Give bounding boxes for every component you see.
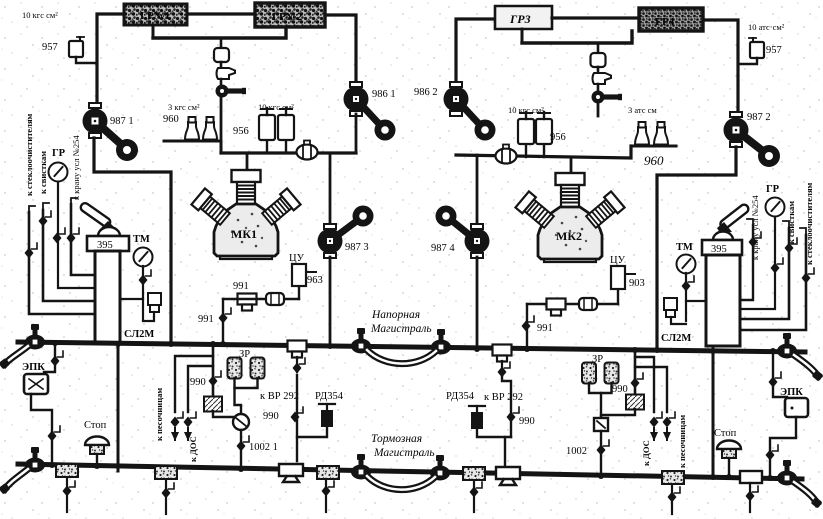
safety valve 960 (right half, left bottle) bbox=[634, 122, 650, 146]
wire: riser to valve 963 bbox=[298, 286, 300, 299]
svg-text:ГР3: ГР3 bbox=[509, 12, 531, 26]
svg-text:960: 960 bbox=[163, 114, 179, 125]
valve (round body) on central drop bbox=[214, 48, 229, 62]
wire: whistle line right bbox=[740, 228, 789, 319]
flex hose right pressure main bbox=[794, 355, 818, 376]
svg-text:990: 990 bbox=[519, 416, 535, 427]
svg-text:к стеклоочистителям: к стеклоочистителям bbox=[24, 113, 34, 196]
tee filter 991 left bbox=[238, 294, 257, 311]
wire: shelf right (956 side) bbox=[456, 146, 631, 158]
svg-text:956: 956 bbox=[233, 126, 249, 137]
svg-text:РД354: РД354 bbox=[446, 391, 475, 402]
drain below bbox=[473, 481, 475, 512]
svg-text:ГР4: ГР4 bbox=[655, 16, 675, 28]
valve 990 left bbox=[209, 371, 222, 387]
valve on gauge line bbox=[53, 228, 66, 244]
valve sander left bbox=[171, 412, 184, 428]
svg-text:990: 990 bbox=[190, 377, 206, 388]
wire: whistle line left bbox=[43, 210, 96, 301]
wire: 987-1 down then right to panel line bbox=[94, 138, 171, 344]
svg-text:к ДОС: к ДОС bbox=[188, 436, 198, 462]
valve 990 right drop bbox=[631, 373, 644, 389]
brake main fitting mid-left bbox=[317, 466, 339, 479]
wire: TM gauge drop bbox=[142, 266, 144, 320]
wire: 986-1 down to shelf bbox=[355, 114, 358, 153]
wire: EPK feed from pressure main bbox=[44, 343, 55, 372]
valve 991 on drop bbox=[219, 308, 232, 324]
pressure regulator 956 (right) bbox=[278, 108, 294, 153]
wye fitting on brake main right bbox=[496, 467, 520, 485]
svg-text:991: 991 bbox=[537, 323, 553, 334]
compressor MK2 bbox=[515, 173, 624, 262]
hose coupling: brake main left end bbox=[25, 447, 45, 473]
reservoir GR4 (dark hatched box) bbox=[639, 8, 703, 31]
svg-text:ЦУ: ЦУ bbox=[610, 255, 626, 266]
stop valve right bbox=[717, 441, 741, 459]
pressure regulator 956 (left) bbox=[259, 108, 275, 153]
reserve reservoir ZR right-1 bbox=[582, 363, 596, 384]
svg-text:990: 990 bbox=[612, 384, 628, 395]
flex hose left pressure main bbox=[5, 346, 28, 364]
wire: sander branch right bbox=[635, 367, 667, 412]
wire bbox=[597, 67, 600, 73]
valve on whistle line bbox=[39, 211, 52, 227]
valve on wiper right bbox=[802, 268, 815, 284]
wire bbox=[220, 79, 223, 86]
crane 395 right: pedestal bbox=[706, 255, 740, 346]
crane 395 left: dome bbox=[98, 227, 120, 236]
wire: shelf drop to valve 987-4 bbox=[476, 155, 479, 228]
safety valve 960 (right half, right bottle) bbox=[653, 122, 669, 146]
drain valve below fitting 2 bbox=[165, 480, 167, 514]
panel border line right (SL2M bay) bbox=[712, 349, 715, 476]
svg-text:1002: 1002 bbox=[566, 446, 587, 457]
pressure-regulator 991 assembly right: wire bbox=[527, 303, 618, 305]
hose coupling: pressure main left end bbox=[25, 324, 45, 350]
wire: sensor U-bend bbox=[143, 312, 154, 321]
wire: sub-manifold under GR3/GR4 bbox=[522, 31, 632, 43]
svg-text:к ВР 292: к ВР 292 bbox=[260, 391, 299, 402]
svg-text:СЛ2М: СЛ2М bbox=[124, 329, 154, 340]
speed sensor fitting SL2M right bbox=[664, 298, 677, 310]
inter-section hose brake main bbox=[367, 476, 435, 490]
svg-text:Стоп: Стоп bbox=[714, 428, 737, 439]
svg-text:к песочницам: к песочницам bbox=[677, 415, 687, 468]
svg-text:ЦУ: ЦУ bbox=[289, 253, 305, 264]
wire: 987-2 down then left to right panel line bbox=[657, 147, 736, 348]
wire: wiper line left bbox=[29, 212, 96, 314]
valve on wiper line bbox=[25, 243, 38, 259]
reservoir GR2 (hatched box B) bbox=[255, 3, 325, 27]
wire: DOS branch left bbox=[188, 366, 213, 412]
drain ball valve right bbox=[592, 91, 623, 104]
svg-text:395: 395 bbox=[711, 244, 727, 255]
valve 1002 right bbox=[597, 440, 610, 456]
valve on GR right line bbox=[771, 258, 784, 274]
reserve reservoir ZR left-1 bbox=[228, 358, 242, 379]
reserve reservoir ZR right-2 bbox=[605, 363, 619, 384]
wire: GR gauge line right bbox=[740, 217, 775, 309]
hose coupling: brake main mid-left bbox=[351, 454, 371, 480]
wire: ZR connections bbox=[235, 378, 258, 388]
flex hose left brake main bbox=[5, 469, 28, 489]
wire: shelf drop to valve 987-3 bbox=[329, 153, 332, 228]
svg-text:ТМ: ТМ bbox=[676, 242, 693, 253]
wire: GR3 bottom stub bbox=[521, 29, 524, 43]
valve 987-4 (ball with handle up-left) bbox=[436, 206, 490, 259]
check valve fitting (circle) bbox=[233, 414, 249, 430]
wire: TM right drop bbox=[685, 273, 687, 321]
svg-text:МК2: МК2 bbox=[556, 229, 582, 243]
wire: crane-254 line left bbox=[71, 204, 96, 275]
wire: riser to valve 903 bbox=[617, 289, 619, 304]
wire: VR292 drop bbox=[296, 375, 298, 461]
svg-text:395: 395 bbox=[97, 240, 113, 251]
wire bbox=[220, 62, 223, 68]
wire: sub-manifold under boxes bbox=[153, 27, 286, 38]
svg-text:ЭПК: ЭПК bbox=[780, 387, 803, 398]
wire: EPK right to brake main bbox=[770, 417, 796, 477]
svg-text:903: 903 bbox=[629, 278, 645, 289]
svg-text:ТМ: ТМ bbox=[133, 234, 150, 245]
valve on whistle right bbox=[785, 238, 798, 254]
filter right bbox=[626, 395, 644, 410]
wire: down to brake main right bbox=[600, 431, 602, 476]
crane 395 right: handle lever bbox=[719, 203, 750, 230]
valve below EPK right bbox=[766, 445, 779, 461]
wire: stop valve stem bbox=[96, 454, 98, 466]
svg-text:Магистраль: Магистраль bbox=[370, 323, 432, 335]
wire bbox=[597, 84, 600, 92]
drain below bbox=[749, 483, 751, 512]
wire: 987-3 down to pressure main bbox=[329, 257, 332, 347]
valve DOS right bbox=[650, 412, 663, 428]
svg-text:3 атс см: 3 атс см bbox=[628, 105, 657, 115]
valve 987-2 (ball with handle down-right) bbox=[724, 112, 781, 167]
wire: box A to box B bbox=[187, 12, 255, 15]
brake line fitting 2 left bbox=[155, 466, 177, 479]
valve on EPK feed right bbox=[769, 372, 782, 388]
EPK device left bbox=[24, 374, 48, 394]
square fitting right bbox=[594, 418, 608, 431]
reducing valve 957 bbox=[69, 37, 84, 57]
wire: shelf drop to compressor MK2 bbox=[570, 158, 573, 173]
wire: pedestal to TM line bbox=[120, 298, 143, 300]
svg-text:963: 963 bbox=[307, 275, 323, 286]
wire: sensor U-bend right bbox=[671, 317, 686, 324]
svg-text:990: 990 bbox=[263, 411, 279, 422]
wire: EPK feed right bbox=[773, 351, 787, 397]
valve on TM right bbox=[682, 276, 695, 292]
wire: sander branch left bbox=[175, 356, 213, 412]
wire: shelf for 956 valves bbox=[221, 151, 356, 154]
panel border line left (SL2M bay) bbox=[117, 345, 120, 471]
reducing valve 957 right bbox=[749, 38, 764, 58]
EPK device right bbox=[785, 398, 808, 417]
pressure regulator 956 (right half, left) bbox=[518, 112, 534, 157]
wire: sander/DOS manifold drop right bbox=[634, 350, 637, 396]
valve 990 right bbox=[507, 407, 520, 423]
hose coupling: brake main mid-right bbox=[430, 455, 450, 481]
coupler sleeve right bbox=[579, 298, 597, 310]
wire: branch to RD354 right bbox=[477, 429, 511, 437]
svg-text:10 кгс см²: 10 кгс см² bbox=[258, 102, 294, 112]
valve 986-2 (ball with handle down-right) bbox=[444, 82, 496, 141]
svg-text:СЛ2М: СЛ2М bbox=[661, 333, 691, 344]
wire: 991 drop to main right bbox=[526, 304, 528, 348]
svg-text:ГР№1: ГР№1 bbox=[140, 10, 170, 22]
brake fitting mid right bbox=[463, 467, 485, 480]
valve 1002-1 bbox=[237, 436, 250, 452]
svg-text:Напорная: Напорная bbox=[371, 309, 420, 321]
valve on EPK feed bbox=[51, 351, 64, 367]
valve 963 (electro-pneumatic) bbox=[292, 264, 306, 286]
wire: drop to safety-valve shelf bbox=[220, 96, 223, 141]
valve 991 right bbox=[522, 316, 535, 332]
svg-text:1002 1: 1002 1 bbox=[249, 442, 278, 453]
pressure switch RD354 left bbox=[319, 404, 335, 427]
valve on crane-254 right bbox=[749, 232, 762, 248]
svg-text:987 2: 987 2 bbox=[747, 112, 771, 123]
svg-text:956: 956 bbox=[550, 132, 566, 143]
wire: central drop right bbox=[597, 43, 600, 53]
filter on 990 line left bbox=[204, 397, 222, 412]
gauge TM right bbox=[677, 255, 696, 274]
wire: shelf for 960 right bbox=[631, 145, 676, 148]
wire: main reservoir feed left, box A to valve 987-1 bbox=[97, 14, 124, 107]
junction dots on mains bbox=[49, 340, 776, 481]
inter-section hose pressure main bbox=[367, 350, 436, 364]
pressure main (Napornaya magistral) bbox=[18, 342, 805, 352]
valve on TM line bbox=[139, 270, 152, 286]
valve 990 on VR292 drop bbox=[291, 407, 304, 423]
safety valve 960 (left bottle) bbox=[184, 117, 200, 141]
wire: central drop from manifold bbox=[220, 38, 223, 48]
wire: GR gauge line left bbox=[58, 182, 96, 288]
svg-text:РД354: РД354 bbox=[315, 391, 344, 402]
wire: box B to valve 986-1 bbox=[325, 15, 356, 86]
pressure switch RD354 right bbox=[469, 406, 485, 429]
stub valve under tee bbox=[296, 357, 298, 372]
gauge GR left bbox=[49, 163, 68, 182]
wye fitting on brake main left bbox=[279, 464, 303, 482]
svg-text:ГР: ГР bbox=[52, 148, 66, 159]
svg-text:к крану усл №254: к крану усл №254 bbox=[750, 195, 760, 260]
svg-text:к ВР 292: к ВР 292 bbox=[484, 392, 523, 403]
valve (round body) on central drop right bbox=[591, 53, 606, 67]
tee filter 991 right bbox=[547, 299, 566, 316]
svg-text:ЭПК: ЭПК bbox=[22, 362, 45, 373]
wire: GR4 to right feed drop bbox=[703, 20, 738, 116]
stub valve under tee right bbox=[501, 361, 503, 376]
hose coupling: pressure main right end bbox=[777, 333, 797, 359]
wire: wiper line right bbox=[740, 235, 806, 330]
wire: down to brake main bbox=[240, 430, 242, 469]
safety valve 960 (right bottle) bbox=[202, 117, 218, 141]
valve DOS left bbox=[184, 412, 197, 428]
svg-text:957: 957 bbox=[42, 42, 58, 53]
wire: filter to ZR junction right bbox=[601, 409, 635, 418]
hose coupling: brake main right end bbox=[777, 460, 797, 486]
valve 903 (electro-pneumatic) bbox=[611, 266, 625, 289]
brake fitting right-2 bbox=[740, 471, 762, 483]
wire: 991 line left bbox=[223, 298, 299, 300]
svg-text:Стоп: Стоп bbox=[84, 420, 107, 431]
oil separator (kettle) bbox=[217, 68, 236, 79]
valve 987-1 (ball with handle down-right) bbox=[83, 103, 139, 161]
drain ball valve with handle bbox=[216, 85, 247, 98]
hose coupling: pressure main mid-left bbox=[351, 328, 371, 354]
reserve reservoir ZR left-2 bbox=[251, 358, 265, 379]
wire: VR292 drop right bbox=[502, 375, 511, 437]
wire: DOS branch right bbox=[635, 357, 654, 412]
tee on pressure main (VR292 branch right) bbox=[493, 345, 512, 362]
svg-text:991: 991 bbox=[233, 281, 249, 292]
svg-text:986 1: 986 1 bbox=[372, 89, 396, 100]
check valve right shelf bbox=[496, 145, 517, 164]
svg-text:Тормозная: Тормозная bbox=[371, 433, 422, 445]
crane 395 left: handle lever bbox=[79, 202, 112, 228]
valve 987-3 (ball with handle up-right) bbox=[318, 206, 374, 259]
svg-text:10 кгс см²: 10 кгс см² bbox=[22, 10, 58, 20]
crane 395 left: pedestal bbox=[95, 251, 120, 343]
valve 986-1 (ball with handle down-right) bbox=[344, 82, 396, 141]
compressor MK1 bbox=[191, 170, 300, 259]
brake line fitting 1 left bbox=[56, 464, 78, 477]
tee on pressure main (VR292 branch left) bbox=[288, 341, 307, 358]
wire: 957 to feed pipe bbox=[76, 57, 97, 63]
wire: stop stem right bbox=[728, 458, 730, 477]
coupler sleeve on 991 line bbox=[266, 293, 284, 305]
wire: 957 right to feed pipe bbox=[738, 58, 757, 64]
wire: branch to RD354 bbox=[297, 427, 327, 437]
valve on crane-254 line bbox=[67, 228, 80, 244]
svg-text:987 1: 987 1 bbox=[110, 116, 134, 127]
wire: stub below drain valve bbox=[597, 102, 600, 116]
crane 395 left: body box bbox=[87, 236, 129, 251]
drain below bbox=[325, 480, 327, 512]
svg-text:к крану усл №254: к крану усл №254 bbox=[71, 135, 81, 200]
wire: crane-254 line right bbox=[740, 225, 753, 300]
wire: GR3 to GR4 bbox=[552, 16, 639, 19]
reservoir GR3 (box) bbox=[495, 6, 552, 29]
svg-text:987 4: 987 4 bbox=[431, 243, 455, 254]
svg-text:991: 991 bbox=[198, 314, 214, 325]
pressure regulator 956 (right half, right) bbox=[536, 112, 552, 157]
svg-text:к песочницам: к песочницам bbox=[154, 388, 164, 441]
gauge GR right bbox=[766, 198, 785, 217]
reservoir GR1 (hatched box A) bbox=[124, 4, 187, 25]
svg-text:к ДОС: к ДОС bbox=[641, 440, 651, 466]
check valve on shelf bbox=[297, 141, 318, 160]
drain valve below fitting 1 bbox=[66, 478, 68, 512]
speed sensor fitting SL2M left bbox=[148, 293, 161, 305]
wire: 991 drop to main left bbox=[222, 299, 224, 345]
wire: sander/DOS manifold drop left bbox=[212, 345, 215, 397]
wire: shelf for 960 valves bbox=[164, 141, 221, 153]
svg-text:к свисткам: к свисткам bbox=[38, 151, 48, 194]
wire: ZR connections right bbox=[589, 383, 612, 393]
svg-text:Магистраль: Магистраль bbox=[373, 447, 435, 459]
crane 395 right: body box bbox=[702, 240, 742, 255]
svg-text:960: 960 bbox=[644, 153, 664, 168]
gauge TM left bbox=[134, 248, 153, 267]
svg-text:987 3: 987 3 bbox=[345, 242, 369, 253]
wire: box A bottom stub bbox=[152, 25, 155, 38]
wire: pedestal to TM right bbox=[686, 300, 706, 302]
crane 395 right: dome bbox=[713, 232, 733, 241]
brake fitting right-1 bbox=[662, 471, 684, 484]
valve sander right bbox=[663, 412, 676, 428]
valve below EPK bbox=[48, 426, 61, 442]
brake main (Tormoznaya magistral) bbox=[18, 464, 802, 479]
svg-text:ГР: ГР bbox=[766, 184, 780, 195]
svg-text:к свисткам: к свисткам bbox=[786, 201, 796, 244]
wire: 986-2 riser to reservoir GR3 bbox=[456, 19, 495, 88]
svg-text:МК1: МК1 bbox=[231, 227, 257, 241]
stop valve left bbox=[85, 437, 109, 455]
hose coupling: pressure main mid-right bbox=[431, 329, 451, 355]
wire: filter to ZR junction bbox=[213, 411, 241, 417]
flex hose right brake main bbox=[794, 482, 817, 503]
svg-text:10 атс·см²: 10 атс·см² bbox=[748, 22, 785, 32]
svg-text:ГР№2: ГР№2 bbox=[272, 11, 303, 23]
wire: 987-4 down to pressure main bbox=[476, 257, 479, 348]
oil separator (kettle) right bbox=[593, 73, 612, 84]
drain below bbox=[671, 485, 673, 514]
wire: shelf drop to compressor MK1 bbox=[246, 153, 249, 170]
svg-text:986 2: 986 2 bbox=[414, 87, 438, 98]
svg-text:957: 957 bbox=[766, 45, 782, 56]
svg-text:3 кгс см²: 3 кгс см² bbox=[168, 102, 200, 112]
wire: EPK to brake main bbox=[31, 394, 52, 464]
